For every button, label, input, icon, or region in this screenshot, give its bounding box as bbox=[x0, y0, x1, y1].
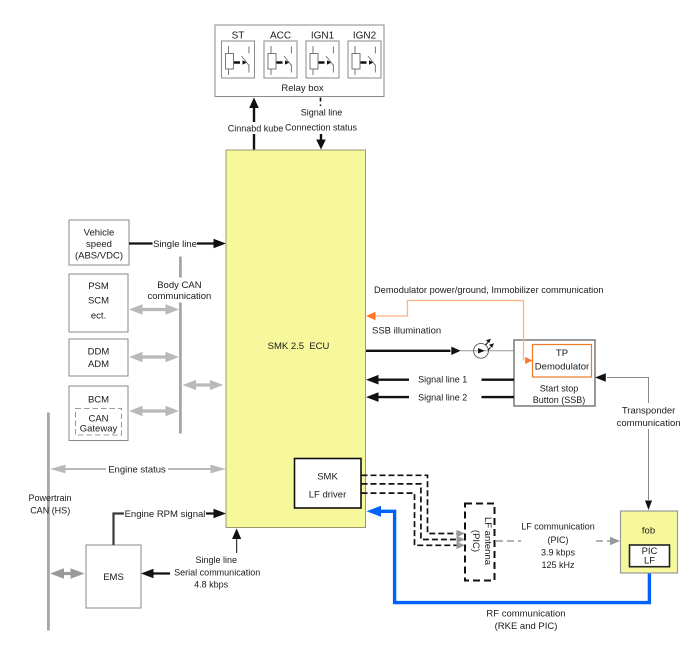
LF antenna (PIC) block dashed bbox=[465, 504, 495, 581]
relay ACC label bbox=[270, 31, 291, 42]
svg-text:(PIC): (PIC) bbox=[470, 530, 481, 552]
SMK 2.5 ECU bbox=[226, 150, 366, 528]
svg-text:(RKE and PIC): (RKE and PIC) bbox=[495, 621, 558, 632]
svg-text:communication: communication bbox=[617, 418, 681, 429]
EMS block bbox=[86, 545, 141, 608]
wire Signal line 2 SSB to ECU bbox=[366, 392, 514, 402]
wire Single line Vehicle speed to ECU bbox=[129, 239, 226, 250]
svg-text:125 kHz: 125 kHz bbox=[541, 560, 575, 570]
svg-text:RF communication: RF communication bbox=[486, 609, 565, 620]
svg-text:ADM: ADM bbox=[88, 359, 109, 370]
DDM ADM block bbox=[69, 339, 128, 376]
svg-text:(ABS/VDC): (ABS/VDC) bbox=[75, 251, 123, 262]
svg-text:Vehicle: Vehicle bbox=[84, 228, 115, 239]
svg-text:BCM: BCM bbox=[88, 395, 109, 406]
svg-text:Demodulator power/ground, Immo: Demodulator power/ground, Immobilizer co… bbox=[374, 285, 604, 296]
wire Powertrain CAN to EMS (double arrow) bbox=[50, 568, 85, 579]
svg-text:speed: speed bbox=[86, 239, 112, 250]
svg-text:SSB illumination: SSB illumination bbox=[372, 326, 441, 337]
svg-text:Single line: Single line bbox=[153, 239, 197, 250]
wire DDM to Body CAN (double arrow) bbox=[129, 352, 179, 363]
label SSB illumination bbox=[372, 326, 441, 337]
svg-text:Transponder: Transponder bbox=[622, 406, 676, 417]
wire RF communication fob to ECU (blue) bbox=[367, 506, 650, 632]
relay IGN1 label bbox=[311, 31, 335, 42]
svg-text:LF communication: LF communication bbox=[521, 522, 595, 532]
wire Serial communication to EMS bbox=[141, 555, 260, 589]
svg-text:PSM: PSM bbox=[88, 281, 109, 292]
TP Demodulator block bbox=[533, 345, 592, 378]
svg-text:IGN1: IGN1 bbox=[311, 31, 335, 42]
wire BCM to Body CAN (double arrow) bbox=[129, 406, 179, 417]
PIC LF block inside fob bbox=[630, 545, 670, 567]
Start stop Button (SSB) block bbox=[514, 340, 595, 406]
Vehicle speed (ABS/VDC) block bbox=[69, 220, 129, 265]
Body CAN bus line bbox=[147, 257, 211, 434]
svg-text:communication: communication bbox=[147, 291, 211, 302]
wire Transponder communication SSB to fob bbox=[595, 373, 681, 510]
svg-text:Demodulator: Demodulator bbox=[535, 362, 589, 373]
svg-text:LF: LF bbox=[644, 556, 655, 567]
wire Engine RPM signal EMS to ECU bbox=[114, 509, 227, 545]
relay IGN2 label bbox=[353, 31, 377, 42]
svg-text:Button (SSB): Button (SSB) bbox=[533, 395, 586, 405]
svg-text:Body CAN: Body CAN bbox=[157, 280, 201, 291]
wire PSM to Body CAN (double arrow) bbox=[129, 304, 179, 315]
svg-text:DDM: DDM bbox=[88, 347, 110, 358]
CAN Gateway block (dashed) bbox=[76, 409, 122, 436]
relay ACC bbox=[264, 41, 297, 78]
svg-text:SMK: SMK bbox=[317, 472, 338, 483]
svg-text:fob: fob bbox=[642, 526, 655, 537]
wire LF driver to LF antenna dashed line A bbox=[362, 475, 466, 537]
svg-text:Signal line 1: Signal line 1 bbox=[418, 375, 467, 385]
svg-text:SCM: SCM bbox=[88, 296, 109, 307]
relay IGN1 bbox=[306, 41, 339, 78]
wire serial single line up into ECU bottom bbox=[232, 529, 241, 554]
svg-text:EMS: EMS bbox=[103, 572, 124, 583]
wire control line ECU to relay box (up arrow) bbox=[228, 98, 284, 151]
wire LF driver to LF antenna dashed line B bbox=[362, 484, 466, 543]
relay box enclosure bbox=[215, 25, 384, 97]
svg-text:Serial communication: Serial communication bbox=[174, 567, 260, 577]
BCM block bbox=[69, 386, 128, 441]
wire signal line relay box to ECU (dashed, down arrow) bbox=[285, 98, 358, 150]
svg-text:IGN2: IGN2 bbox=[353, 31, 377, 42]
svg-text:Cinnabd kube: Cinnabd kube bbox=[228, 124, 284, 134]
svg-text:TP: TP bbox=[556, 348, 568, 359]
Powertrain CAN (HS) bus line bbox=[28, 413, 71, 631]
svg-text:Relay box: Relay box bbox=[281, 83, 323, 94]
wire Signal line 1 SSB to ECU bbox=[366, 375, 514, 385]
wire SSB illumination ECU to lamp bbox=[366, 347, 514, 355]
svg-text:Signal line 2: Signal line 2 bbox=[418, 392, 467, 402]
wire LF driver to LF antenna dashed line C bbox=[362, 493, 466, 549]
svg-text:LF driver: LF driver bbox=[309, 490, 346, 501]
svg-text:Gateway: Gateway bbox=[80, 424, 118, 435]
wire Engine status Powertrain CAN to ECU (double arrow) bbox=[50, 465, 226, 476]
wire Body CAN to ECU (double arrow) bbox=[183, 380, 224, 390]
wire Demodulator power/ground orange path bbox=[366, 285, 604, 364]
svg-text:Engine status: Engine status bbox=[108, 465, 166, 476]
svg-text:Connection status: Connection status bbox=[285, 123, 358, 133]
svg-text:Engine RPM signal: Engine RPM signal bbox=[125, 509, 206, 520]
lamp illumination symbol bbox=[474, 339, 494, 358]
PSM SCM ect. block bbox=[69, 274, 128, 332]
svg-text:Powertrain: Powertrain bbox=[28, 493, 71, 503]
svg-text:ACC: ACC bbox=[270, 31, 291, 42]
svg-text:4.8 kbps: 4.8 kbps bbox=[194, 579, 229, 589]
svg-text:SMK 2.5 ECU: SMK 2.5 ECU bbox=[268, 341, 330, 352]
fob block bbox=[621, 511, 678, 573]
relay ST bbox=[222, 41, 255, 78]
svg-text:Single line: Single line bbox=[196, 555, 238, 565]
relay IGN2 bbox=[348, 41, 381, 78]
relay ST label bbox=[232, 31, 245, 42]
wire LF communication antenna to fob dashed bbox=[496, 522, 620, 570]
svg-text:ST: ST bbox=[232, 31, 245, 42]
svg-text:3.9 kbps: 3.9 kbps bbox=[541, 548, 576, 558]
svg-text:(PIC): (PIC) bbox=[548, 535, 569, 545]
svg-text:LF antenna: LF antenna bbox=[482, 517, 493, 566]
svg-text:CAN (HS): CAN (HS) bbox=[30, 506, 70, 516]
svg-text:ect.: ect. bbox=[91, 311, 106, 322]
SMK LF driver block bbox=[295, 459, 362, 509]
svg-text:Start stop: Start stop bbox=[540, 384, 579, 394]
svg-text:Signal line: Signal line bbox=[301, 108, 343, 118]
